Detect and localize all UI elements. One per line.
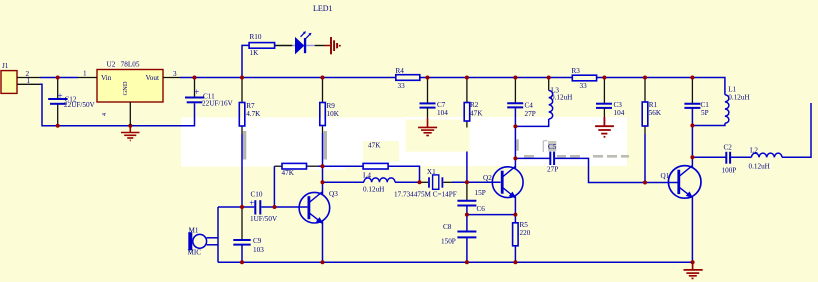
capacitor C7 [420,103,436,107]
junction (645,182.5) [643,181,647,185]
svg-text:0.12uH: 0.12uH [728,94,749,102]
svg-text:0.12uH: 0.12uH [749,163,770,171]
resistor R9 [320,103,326,126]
resistor R5 [513,223,519,246]
svg-text:103: 103 [253,246,264,254]
wire: R9 top pin [322,78,324,103]
svg-text:22UF/50V: 22UF/50V [64,101,96,109]
svg-text:M1: M1 [189,227,199,235]
svg-text:L4: L4 [363,172,371,180]
grey ghost bar beside Q2 collector [516,139,519,151]
wire: C12 branch bottom [57,105,59,126]
svg-text:+: + [194,87,199,97]
wire: 47K-left left end drop to Q3 base row [274,165,282,167]
wire: C1/L1 node down to C2 node [691,126,693,158]
junction (466.9,182.3) [465,180,469,184]
svg-text:1: 1 [83,70,87,78]
svg-text:0.12uH: 0.12uH [551,94,572,102]
svg-text:C1: C1 [701,101,710,109]
resistor R7 [239,103,245,127]
svg-text:MIC: MIC [188,249,202,257]
wire: R10 to LED anode [275,45,293,47]
J1 pin 2 stub [17,77,40,79]
wire: C4 node down to C5 node [514,126,516,158]
svg-text:5P: 5P [701,109,709,117]
wire: C11 branch top [194,78,196,97]
junction (274.5,207) [273,205,277,209]
U2 pin 1 stub [78,77,97,79]
wire: C7 top pin [427,78,429,104]
wire: R1 bottom to Q1 base row [644,126,646,134]
junction (242,207) [240,205,244,209]
wire: L2 right to antenna stub [782,103,811,157]
svg-text:4.7K: 4.7K [246,110,261,118]
J1 pin 1 stub [17,83,40,85]
svg-text:C8: C8 [443,223,452,231]
wire: emitter row 15P/R5 [467,214,516,216]
junction (466.9,262.3) [465,260,469,264]
wire: bottom ground rail [218,261,693,263]
wire: C4 bottom to L3 junction [514,108,516,126]
capacitor C1 [684,104,700,108]
svg-text:27P: 27P [525,110,536,118]
wire: L1 bottom link [692,123,725,125]
regulator U2 78L05 [78,70,180,126]
wire: C9 top pin [241,207,243,240]
svg-text:Q1: Q1 [661,172,670,180]
wire: R5 bottom pin [514,246,516,262]
svg-text:3: 3 [173,70,177,78]
svg-text:104: 104 [437,109,448,117]
wire: C1 top pin [691,78,693,104]
wire: R2 bottom stub remnant [466,121,468,128]
svg-text:150P: 150P [441,238,456,246]
LED LED1 [296,31,312,53]
svg-text:27P: 27P [547,166,558,174]
svg-text:1K: 1K [250,49,260,57]
wire: LED pin line light blue [292,45,314,47]
wire: C12 branch top [57,78,59,99]
svg-text:47K: 47K [282,169,295,177]
wire: Q1 collector riser [691,157,693,167]
wire: Q3 base row from mic riser to C10 [218,206,254,208]
wire: ground stem after LED [324,45,331,47]
svg-text:C9: C9 [253,237,262,245]
wire: R1 top pin [644,78,646,103]
capacitor C11 [185,98,204,103]
junction (515.4,126.4) [513,124,517,128]
capacitor C5 [550,152,554,165]
svg-text:C6: C6 [477,205,486,213]
junction (692.4,77.5) [690,76,694,80]
junction (466.9,77.5) [465,76,469,80]
wire: 47K row left segment [307,165,319,167]
wire: J1 pin1 right, down, ground return rail to C11 bottom [40,84,195,125]
wire: C2 left from Q1 collector node [692,156,726,158]
capacitor C9 [233,240,250,245]
junction (322.5,166.2) [321,164,325,168]
capacitor C10 [255,200,260,214]
resistor R1 [642,102,648,126]
svg-text:R2: R2 [470,101,479,109]
white erase overlay band left [181,118,404,167]
svg-text:0.12uH: 0.12uH [363,186,384,194]
wire: Q1 base wire [645,182,678,184]
svg-text:R1: R1 [649,101,658,109]
grey ghost dashes of erased wire [524,155,629,158]
junction (419.5,182.3) [418,180,422,184]
white erase overlay band right [404,117,627,166]
svg-text:220: 220 [520,229,531,237]
svg-text:Vin: Vin [101,74,112,82]
wire: R7 top pin [241,78,243,103]
svg-text:C5: C5 [548,143,557,151]
svg-text:C3: C3 [614,101,623,109]
wire: 15P cap top pin [466,182,468,200]
transistor Q1 [668,165,701,198]
wire: Q1 emitter drop to bottom rail [691,197,693,263]
wire: C8 top pin [466,215,468,231]
white erase overlay notch under 47K row [296,118,345,170]
capacitor C8 [457,232,476,238]
resistor R2 [464,103,470,122]
grey ghost bar under R7 [243,131,247,160]
svg-text:Q3: Q3 [329,190,338,198]
wire: R2 top pin [466,78,468,103]
capacitor C3 [596,104,612,108]
wire: 47K row node down to L4 row [322,166,324,182]
wire: C1 bottom to L1 node [691,108,693,125]
wire: C5 right wire, drop and run to Q1 base node [554,158,645,182]
junction (692.4,157.3) [690,155,694,159]
wire: R7 bottom through erased band to C10 row [241,126,243,134]
junction (322.5,77.5) [321,76,325,80]
junction (604.4,77.5) [602,76,606,80]
wire: X1 right plate to Q2 base [443,181,452,183]
svg-text:104: 104 [614,109,625,117]
resistor R10 [249,43,275,49]
inductor L4 [364,178,395,182]
wire: C4 top pin [514,78,516,104]
svg-text:R4: R4 [396,67,405,75]
svg-text:C2: C2 [724,144,733,152]
yellow patch around 47K label [363,141,399,162]
junction (515.4,214.6) [513,213,517,217]
capacitor C4 [507,103,523,107]
inductor L3 [549,91,553,120]
svg-text:1UF/50V: 1UF/50V [250,215,278,223]
grey ghost bracket left of C5 [543,141,547,152]
connector J1 [1,71,40,94]
svg-text:L1: L1 [728,86,736,94]
junction (427.5,77.5) [426,76,430,80]
wire: C10 right plate to Q3 base [261,206,307,208]
svg-text:+: + [249,198,254,208]
wire: mic bottom pin stub [207,244,218,246]
svg-text:R5: R5 [520,221,529,229]
junction (466.9,214.6) [465,213,469,217]
junction (645,77.5) [643,76,647,80]
wire: L4 to X1 left plate [395,181,420,183]
wire: R5 top pin [514,215,516,223]
junction (57.7,125.7) [56,124,60,128]
svg-text:56K: 56K [649,109,662,117]
svg-text:R3: R3 [572,67,581,75]
svg-text:C4: C4 [525,102,534,110]
svg-text:R10: R10 [250,33,262,41]
wire: C8 bottom pin [466,238,468,262]
junction (322.5,262.3) [321,260,325,264]
transistor Q2 [492,166,523,198]
transistor Q3 [299,192,330,224]
junction (194.5,77.5) [193,76,197,80]
wire: U2 Vout rail segment to R4 [180,77,396,79]
ground at bottom rail right end [684,262,703,278]
svg-text:Q2: Q2 [483,174,492,182]
svg-text:J1: J1 [2,62,9,70]
wire: X1 row from 47K node to crystal [323,181,364,183]
svg-text:L2: L2 [750,147,758,155]
junction (515.4,158.4) [513,156,517,160]
grey ghost box behind C5 label [548,141,556,151]
junction (548.7,77.5) [547,76,551,80]
resistor 47K right (feedback) [363,163,388,169]
svg-text:GND: GND [122,81,129,95]
U2 pin 3 stub [163,77,180,79]
grey ghost bar under R9 [324,131,328,160]
ground under C7 [418,108,437,136]
svg-text:Vout: Vout [146,74,159,82]
capacitor C12 [48,99,67,104]
wire: R2 lower segment to X1 row [466,152,468,183]
svg-text:+: + [58,91,63,101]
svg-text:10K: 10K [327,110,340,118]
resistor R3 [572,75,596,81]
svg-text:R9: R9 [327,102,336,110]
svg-text:100P: 100P [722,167,737,175]
wire: Q2 collector riser [514,158,516,168]
wire: C3 top pin [603,78,605,104]
wire: C2 right to L2 [730,156,751,158]
svg-text:U2 78L05: U2 78L05 [107,61,140,69]
resistor R4 [396,75,420,81]
junction (130.3,125.7) [128,124,132,128]
crystal X1 [429,175,442,189]
junction (692.4,125.5) [690,124,694,128]
wire: mic riser vertical [217,207,219,262]
resistor 47K left (Q3 bias) [282,163,307,169]
wire: Q3 collector riser [322,182,324,194]
svg-text:22UF/16V: 22UF/16V [202,100,234,108]
svg-text:33: 33 [398,82,406,90]
wire: C5 left wire from Q2 collector node [515,157,549,159]
U2 pin 4 GND stub [129,102,131,126]
wire: R10 branch up from rail [242,45,249,77]
inductor L2 [751,153,782,157]
wire: 47K-right resistor drop link at X1 node [388,166,420,182]
junction (57.7,77.5) [56,76,60,80]
wire: rail from R3 to corner down into L1 [597,78,725,95]
junction (515.4,77.5) [513,76,517,80]
svg-text:17.734475M C=14PF: 17.734475M C=14PF [394,191,457,199]
svg-text:1: 1 [27,77,31,85]
svg-text:47K: 47K [470,110,483,118]
svg-text:R7: R7 [246,102,255,110]
svg-text:C7: C7 [437,101,446,109]
sideways ground after LED [331,37,340,54]
microphone M1 [188,232,206,250]
wire: R9 bottom to 47K row [322,126,324,134]
wire: mic top pin stub [207,237,218,239]
wire: rail between R4 and R3 [420,77,573,79]
svg-text:47K: 47K [368,142,381,150]
wire: L3 top pin [548,78,550,91]
svg-text:X1: X1 [427,168,436,176]
wire: L3 bottom link to C4 node [515,119,548,126]
ground under U2 pin4 [121,126,140,141]
wire: J1 pin2 to C12 node [40,77,78,79]
wire: 47K row between resistors [323,165,364,167]
wire: C9 bottom pin [241,245,243,262]
wire: 15P cap bottom to C6 node [466,206,468,215]
ground under C3 [595,108,614,137]
wire: Q3 emitter drop to bottom rail [322,222,324,263]
junction (322.5,182.3) [321,180,325,184]
capacitor 15P (C6 node) [457,201,476,206]
yellow patch around C7 ground [406,120,470,152]
wire: LED cathode to sideways ground [315,45,324,47]
svg-text:LED1: LED1 [313,4,333,13]
svg-text:15P: 15P [475,189,486,197]
svg-text:33: 33 [580,82,588,90]
junction (515.4,262.3) [513,260,517,264]
junction (242,77.5) [240,76,244,80]
inductor L1 [725,95,729,124]
junction (692.6,262.3) [691,260,695,264]
svg-text:4: 4 [102,113,108,116]
wire: Q2 emitter drop to R5 node [514,196,516,214]
capacitor C2 [726,152,730,164]
junction (242,262.3) [240,260,244,264]
